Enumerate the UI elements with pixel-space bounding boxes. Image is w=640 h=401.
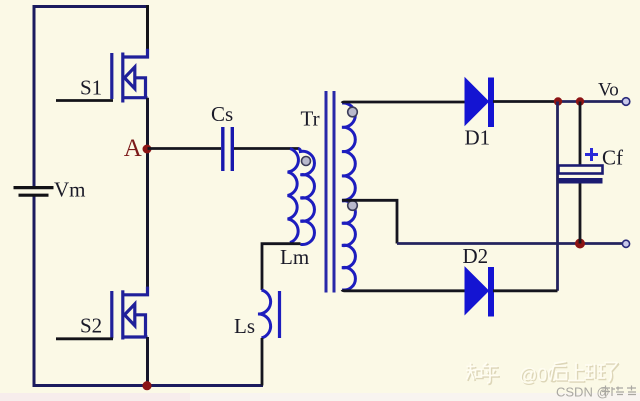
svg-text:CSDN @: CSDN @ (556, 385, 610, 400)
transformer secondary winding upper (342, 103, 355, 200)
terminal Vo (622, 98, 630, 106)
wire D2 to crossover vertical (493, 289, 558, 292)
capacitor Cs (223, 127, 233, 171)
wire S2 source to bottom rail (146, 337, 149, 386)
capacitor Cf (579, 102, 582, 166)
wire secondary top to D1 (342, 102, 466, 103)
wire S1 source to node A to S2 drain (146, 98, 149, 295)
svg-text:Tr: Tr (301, 107, 320, 131)
watermark zhihu (519, 365, 559, 386)
terminal Vo minus (622, 240, 629, 247)
battery Vm (14, 188, 54, 196)
diode D2 (465, 267, 494, 317)
wire node A to Cs (148, 147, 222, 150)
svg-text:A: A (124, 135, 142, 162)
polarity dot secondary mid (348, 201, 358, 211)
diode D1 (465, 78, 494, 128)
wire Vo node to terminal (558, 100, 626, 103)
svg-text:D2: D2 (463, 244, 489, 268)
svg-text:Cs: Cs (211, 102, 233, 126)
plus sign Cf (585, 148, 598, 161)
junction dot Cf bottom (575, 239, 585, 249)
wire D1 to Vo node (493, 100, 558, 103)
svg-text:S1: S1 (80, 76, 102, 100)
wire secondary bottom to D2 (342, 290, 466, 291)
wire Lm bottom row (262, 244, 301, 290)
node A (143, 145, 152, 154)
inductor Ls (258, 290, 271, 338)
watermark zhihu glyph shapes (466, 362, 619, 385)
wire Ls bottom to rail (261, 338, 264, 386)
svg-text:Cf: Cf (602, 146, 623, 170)
transistor Q S1 (112, 49, 148, 103)
junction dot Cf top (576, 97, 584, 105)
svg-text:Vo: Vo (598, 80, 619, 101)
wire crossover vertical D1-D2 (556, 102, 559, 291)
wire drain S1 (vertical from top rail) (146, 5, 149, 50)
svg-text:Ls: Ls (234, 314, 255, 338)
wire bottom rail (34, 196, 263, 386)
junction dot D1/crossover (554, 97, 562, 105)
wire output bottom row (397, 242, 626, 245)
polarity dot primary (302, 157, 311, 166)
transistor Q S2 (112, 287, 148, 340)
wire center tap (342, 200, 397, 243)
inductor Lm (288, 149, 299, 243)
svg-text:D1: D1 (465, 126, 491, 150)
junction dot bottom rail (142, 381, 151, 390)
polarity dot secondary top (348, 107, 358, 117)
wire Cs to Lm / primary top (234, 147, 299, 150)
bottom edge artifact strip (0, 393, 640, 401)
wire top rail (34, 7, 148, 187)
wire gate lead S2 (56, 337, 113, 340)
svg-text:Lm: Lm (280, 245, 309, 269)
wire gate lead S1 (56, 99, 113, 102)
core bar Ls (278, 291, 281, 338)
transformer secondary winding lower (342, 201, 355, 290)
watermark csdn glyphs (601, 386, 636, 397)
transformer core (326, 91, 334, 293)
svg-text:Vm: Vm (54, 178, 86, 202)
svg-text:S2: S2 (80, 314, 102, 338)
transformer primary winding (298, 149, 314, 245)
